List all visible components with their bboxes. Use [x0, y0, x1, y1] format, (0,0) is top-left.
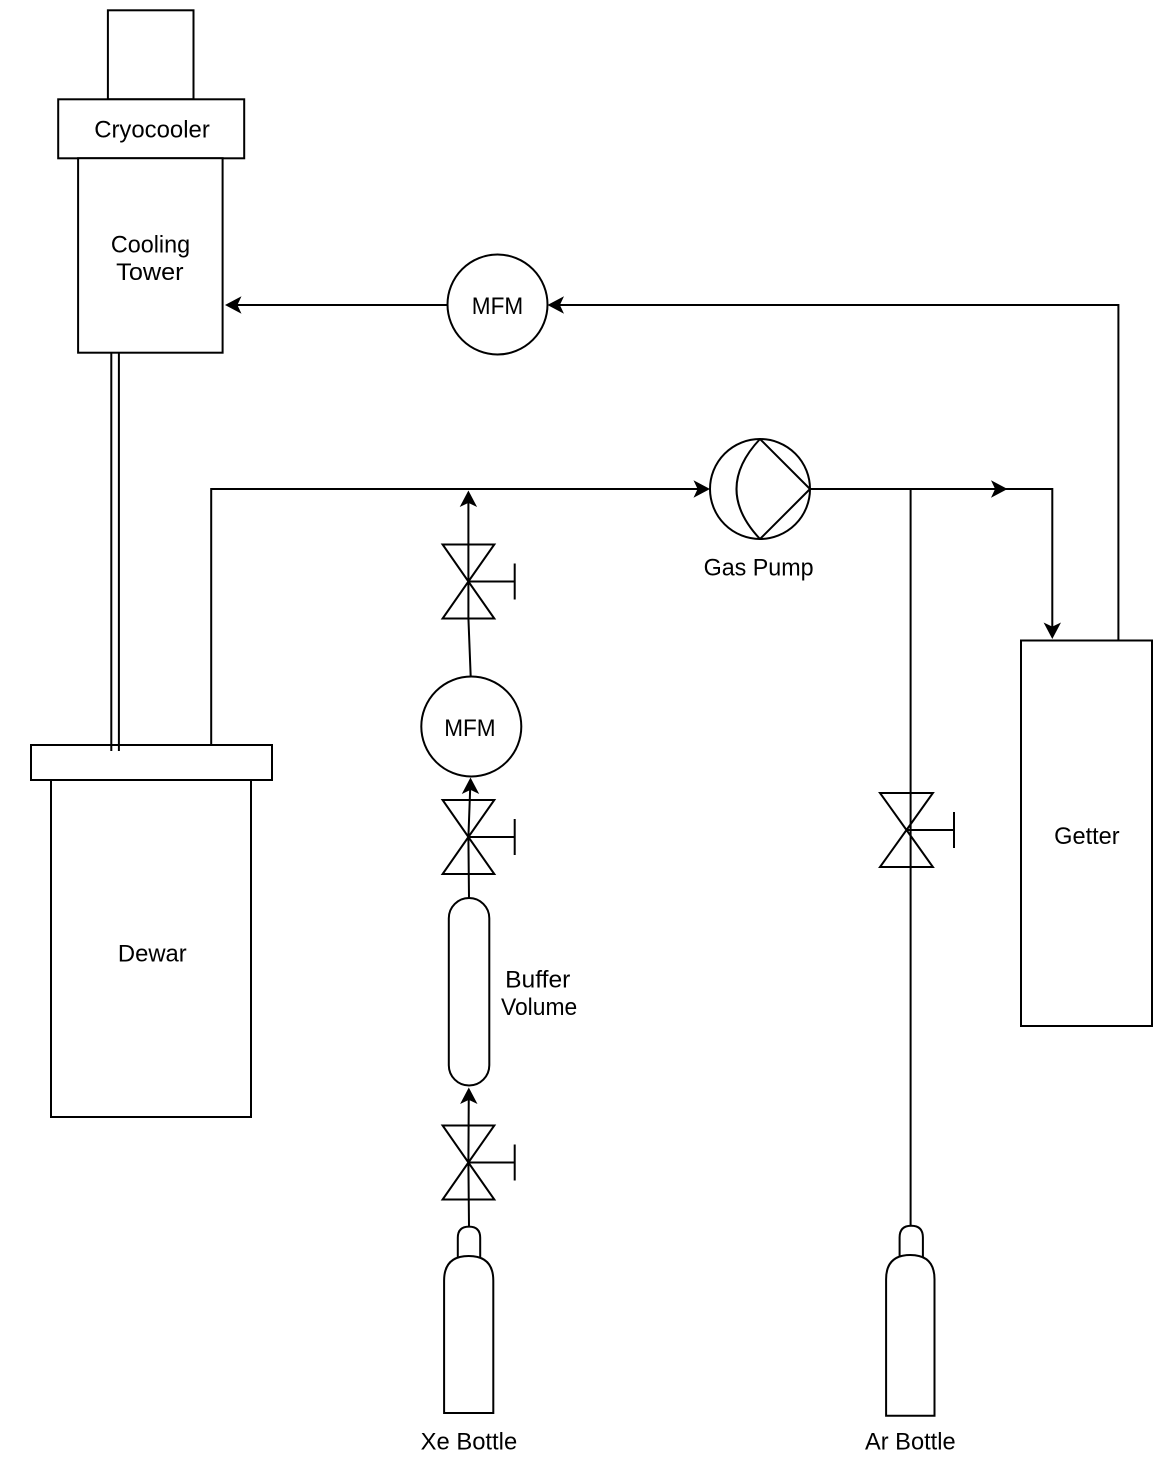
svg-text:Volume: Volume [501, 994, 577, 1021]
svg-text:Gas Pump: Gas Pump [704, 555, 814, 582]
svg-text:Buffer: Buffer [505, 966, 570, 993]
svg-text:Xe Bottle: Xe Bottle [421, 1429, 518, 1456]
svg-text:Ar Bottle: Ar Bottle [865, 1429, 956, 1456]
svg-text:Tower: Tower [116, 259, 183, 286]
svg-text:Getter: Getter [1054, 823, 1120, 850]
svg-text:MFM: MFM [444, 715, 495, 742]
svg-text:MFM: MFM [472, 293, 523, 320]
svg-text:Cryocooler: Cryocooler [94, 116, 210, 143]
svg-text:Cooling: Cooling [111, 231, 190, 258]
svg-text:Dewar: Dewar [118, 941, 187, 968]
